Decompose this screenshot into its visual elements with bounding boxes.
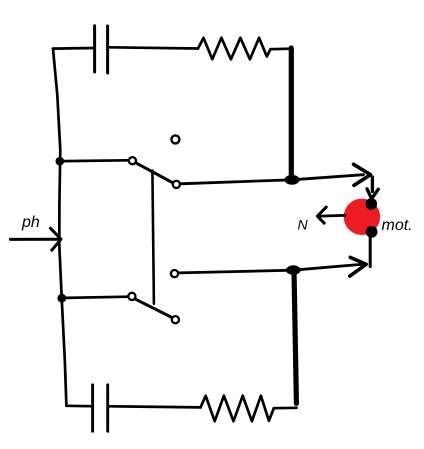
capacitor C1 bbox=[95, 26, 108, 73]
wire C1 to R1 bbox=[109, 47, 198, 48]
switch link bar bbox=[152, 171, 154, 304]
wire S2 contact to motor (bottom horizontal) bbox=[178, 264, 364, 273]
arrowhead right (bottom wire) bbox=[350, 257, 366, 276]
wire arrow to motor top bbox=[371, 177, 374, 192]
motor top terminal dot bbox=[366, 198, 378, 210]
node junction top-right bbox=[284, 175, 299, 185]
wire to switch S1 common bbox=[63, 159, 129, 163]
resistor R1 bbox=[198, 38, 271, 60]
svg-text:N: N bbox=[298, 217, 309, 233]
capacitor C2 bbox=[93, 385, 108, 432]
switch S1 blade bbox=[135, 163, 173, 183]
node junction left-bottom bbox=[57, 294, 66, 303]
motor bottom terminal dot bbox=[366, 226, 378, 238]
arrow N (left pointing) bbox=[320, 214, 346, 218]
wire C2 to R2 bbox=[109, 406, 200, 407]
arrowhead right (top wire) bbox=[354, 164, 371, 185]
switch S1 open contact bbox=[171, 135, 179, 143]
wire S1 contact to motor (top horizontal) bbox=[180, 175, 364, 184]
switch S2 blade bbox=[135, 299, 173, 318]
resistor R2 bbox=[201, 396, 274, 422]
svg-text:ph: ph bbox=[21, 214, 40, 231]
wire left vertical main bbox=[53, 49, 66, 406]
wire R2 to bottom-right corner bbox=[274, 406, 297, 409]
wire up to motor bottom bbox=[369, 236, 372, 267]
wire R1 to top-right corner bbox=[271, 47, 292, 50]
wire top-left horizontal bbox=[53, 47, 93, 50]
wire to switch S2 common bbox=[66, 297, 128, 298]
wire thick vertical bottom-right bbox=[294, 270, 296, 404]
wire thick vertical top-right bbox=[289, 48, 294, 179]
switch S2 lower contact bbox=[172, 316, 179, 323]
node junction bottom-right bbox=[286, 265, 301, 275]
switch S1 common contact bbox=[129, 157, 136, 164]
arrow ph (input) bbox=[10, 238, 57, 241]
switch S2 common contact bbox=[128, 293, 135, 300]
svg-text:mot.: mot. bbox=[382, 217, 413, 234]
switch S2 upper contact bbox=[171, 270, 178, 277]
node junction left-top bbox=[56, 157, 65, 166]
motor M red body bbox=[344, 199, 380, 235]
arrowhead down (into motor top) bbox=[367, 189, 378, 199]
switch S1 thrown contact bbox=[173, 181, 180, 188]
wire bottom-left horizontal bbox=[66, 404, 91, 407]
